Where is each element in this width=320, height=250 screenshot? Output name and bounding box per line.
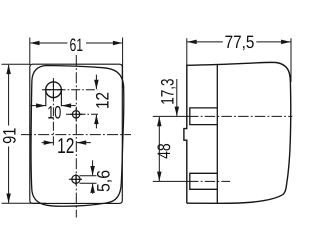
dim 91 extension bottom [2,202,47,204]
keyhole slot right line [60,91,62,107]
label 17,3 [157,78,177,104]
label 10 [47,102,61,122]
side view lens joint line [216,65,218,204]
arrow 10 left [36,103,46,108]
bottom stud crosshair circle [72,175,80,183]
label 12 horizontal [57,134,74,158]
svg-text:12: 12 [57,134,74,158]
arrow 17,3 [175,107,180,117]
label 48 [154,143,174,159]
dim 91 line [8,65,10,203]
lamp front view housing outline [30,64,123,203]
dim 5,6 tails [92,160,94,194]
dim 10 right tail [62,105,76,107]
top stud centerline [153,115,188,117]
main vertical centerline [75,55,77,218]
dim 77,5 extension right [290,38,292,82]
hole centerline vertical [52,78,54,146]
dim 61 line [30,42,122,44]
label 5,6 [93,170,113,192]
side view top edge [187,62,291,82]
dim 12 horizontal tails [42,142,91,144]
bottom stud rectangle [190,173,218,189]
label 12 vertical [92,92,112,109]
label 61 [69,35,83,55]
arrow 12v bottom [94,115,99,125]
bottom stud centerline [153,180,188,182]
arrow 77,5 right [281,40,291,45]
arrow 10 right [62,103,72,108]
middle stud crosshair circle [72,111,79,118]
label 91 [0,128,20,144]
mounting hole circle (keyhole) [46,82,62,98]
dim 10 left tail [30,105,45,107]
bottom stud horizontal centerline [69,178,84,180]
lamp front view lens contour [31,66,124,207]
arrow 77,5 left [187,40,197,45]
arrow 12h left [44,140,54,145]
dim 48 line [158,117,160,181]
keyhole slot left line [45,91,47,107]
svg-text:48: 48 [154,143,174,159]
dim 17,3 line [176,79,178,116]
svg-text:91: 91 [0,128,20,144]
arrow 48 top [157,117,162,127]
arrowheads [6,40,290,203]
arrow 5,6 top [90,166,95,176]
dim 12 vertical tails [95,75,97,129]
arrow 91 top [6,65,11,75]
arrow 5,6 bottom [90,183,95,193]
svg-text:5,6: 5,6 [93,170,113,192]
arrow 61 right [113,41,123,46]
dim 77,5 line [187,41,290,43]
side view right lens curve [283,83,291,195]
side view bottom edge [187,195,283,204]
side view left edge with lug [184,64,187,203]
mid horizontal centerline [21,134,131,136]
dim 61 extension right [122,38,124,89]
arrow 48 bottom [157,172,162,182]
label 77,5 [225,32,255,52]
crosshair solid strokes big circle [45,81,64,100]
arrow 91 bottom [6,194,11,204]
svg-text:77,5: 77,5 [225,32,255,52]
svg-text:10: 10 [47,102,61,122]
arrow 12h right [77,140,87,145]
dim 5,6 extension lines [80,176,97,184]
dim 91 extension top [2,63,31,65]
crosshair solid strokes middle stud [70,108,83,121]
arrow 61 left [30,41,40,46]
dim 61 extension left [29,38,31,66]
arrow 12v top [94,80,99,90]
svg-text:17,3: 17,3 [157,78,177,104]
svg-text:61: 61 [69,35,83,55]
crosshair solid strokes bottom stud [71,174,82,185]
middle stud horizontal centerline [66,113,99,115]
svg-text:12: 12 [92,92,112,109]
hole centerline horizontal [42,89,97,91]
dim 77,5 extension left [186,38,188,64]
top stud rectangle [190,108,218,125]
